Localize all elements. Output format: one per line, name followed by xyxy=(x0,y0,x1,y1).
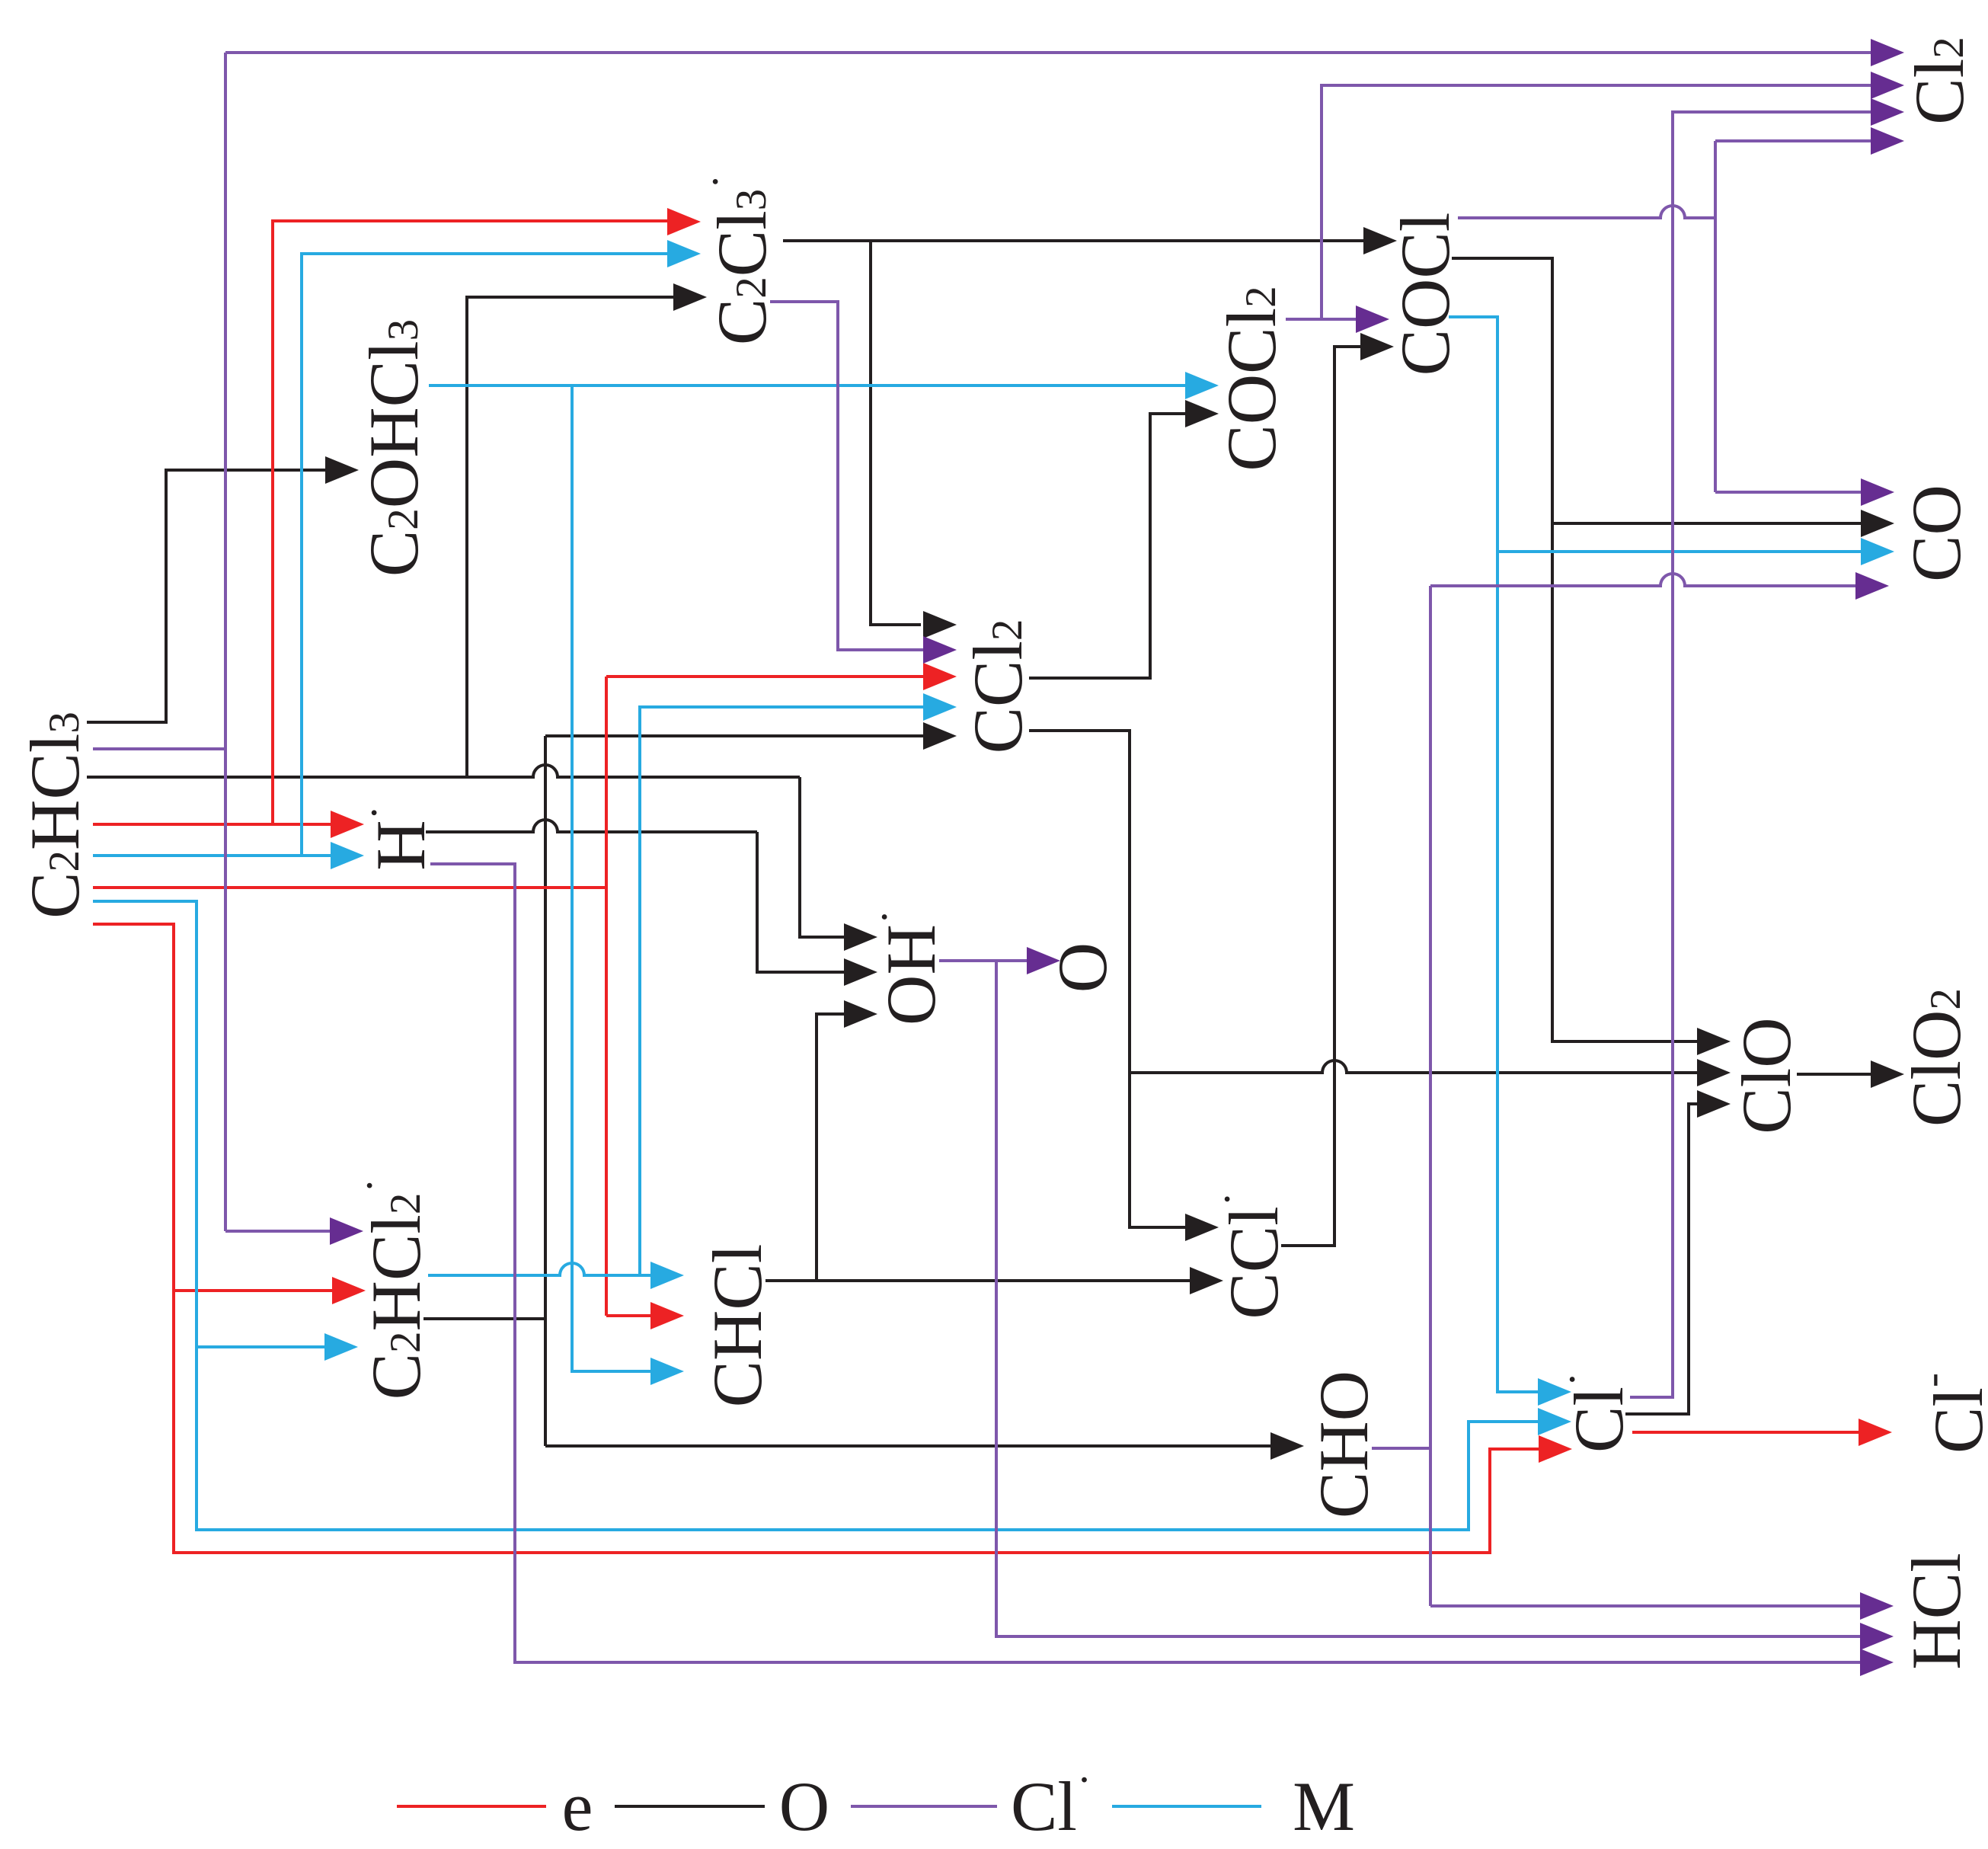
svg-text:C2​OHCl3​: C2​OHCl3​ xyxy=(355,319,433,577)
svg-text:ClO2​: ClO2​ xyxy=(1897,988,1975,1127)
svg-text:CCl2​: CCl2​ xyxy=(959,619,1037,754)
svg-text:COCl2​: COCl2​ xyxy=(1213,286,1290,471)
svg-text:e: e xyxy=(562,1767,593,1845)
svg-text:COCl: COCl xyxy=(1386,213,1464,376)
svg-text:O: O xyxy=(1044,942,1121,993)
svg-text:C2​Cl3​·​: C2​Cl3​·​ xyxy=(692,174,781,345)
svg-text:Cl2​: Cl2​ xyxy=(1900,37,1978,124)
svg-text:Cl·​: Cl·​ xyxy=(1011,1756,1091,1846)
svg-text:OH·​: OH·​ xyxy=(861,910,951,1025)
svg-text:CCl·​: CCl·​ xyxy=(1203,1192,1293,1319)
svg-text:ClO: ClO xyxy=(1728,1017,1805,1134)
svg-text:HCl: HCl xyxy=(1897,1553,1975,1669)
svg-text:H·​: H·​ xyxy=(350,805,440,870)
svg-text:O: O xyxy=(779,1767,829,1845)
svg-text:Cl·​: Cl·​ xyxy=(1549,1372,1638,1453)
svg-text:CHO: CHO xyxy=(1305,1371,1382,1518)
svg-text:M: M xyxy=(1293,1767,1355,1845)
svg-text:CO: CO xyxy=(1897,485,1975,582)
svg-text:C2​HCl3​: C2​HCl3​ xyxy=(16,712,94,919)
svg-text:Cl-​: Cl-​ xyxy=(1908,1373,1988,1454)
svg-text:CHCl: CHCl xyxy=(698,1244,776,1408)
svg-text:C2​HCl2​·​: C2​HCl2​·​ xyxy=(346,1179,436,1400)
